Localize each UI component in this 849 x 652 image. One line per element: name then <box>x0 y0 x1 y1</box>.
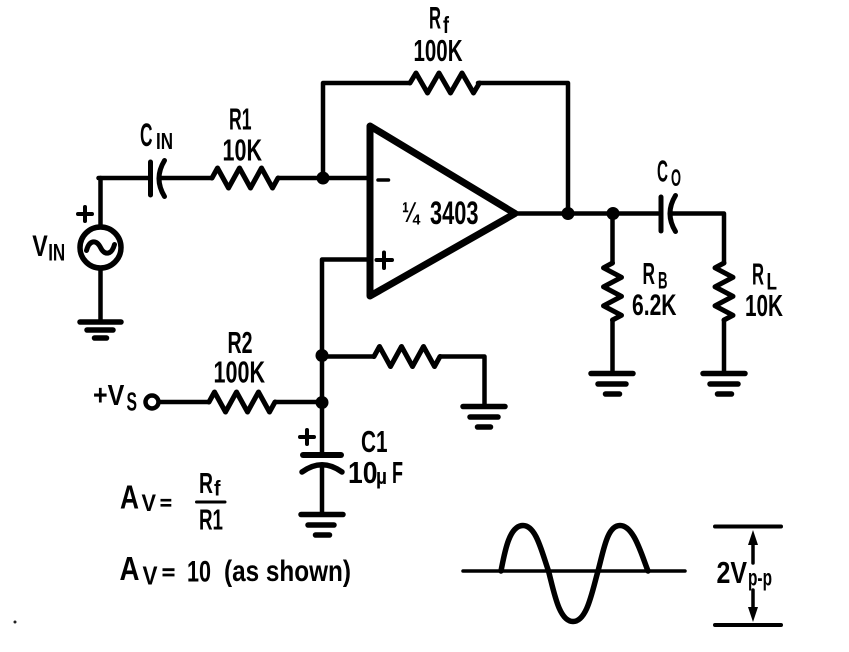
node junction R2/C1 <box>316 396 329 409</box>
svg-text:100K: 100K <box>414 33 463 68</box>
svg-text:10: 10 <box>348 455 378 490</box>
waveform sine <box>501 526 648 622</box>
C1 plus polarity mark <box>300 430 314 444</box>
source VIN <box>80 227 121 268</box>
VIN plus polarity mark <box>78 207 92 221</box>
formula Av = 10 (as shown) <box>120 550 352 591</box>
wire resistor to ground corner <box>440 357 485 405</box>
wire RB branch <box>610 214 615 264</box>
capacitor C1 <box>302 455 342 472</box>
svg-text:R1: R1 <box>199 505 223 537</box>
reference line top <box>715 525 781 529</box>
op-amp plus input symbol <box>377 253 393 269</box>
wire node down to C1 <box>320 355 325 453</box>
svg-text:V: V <box>142 490 157 517</box>
ground under RL <box>703 374 745 395</box>
wire node to gnd resistor <box>322 354 374 359</box>
svg-text:+V: +V <box>93 380 125 412</box>
wire output from op-amp <box>514 211 658 216</box>
svg-text:10: 10 <box>187 556 211 589</box>
svg-text:10K: 10K <box>223 133 263 168</box>
ground under C1 <box>301 515 343 536</box>
label RL 10K <box>745 257 783 324</box>
svg-text:¼: ¼ <box>402 197 421 229</box>
label Co <box>657 154 681 193</box>
wire R2 to node <box>275 400 322 405</box>
op-amp minus input symbol <box>378 178 389 182</box>
formula Av = Rf/R1 <box>120 468 223 537</box>
label VIN <box>32 230 65 267</box>
svg-text:R: R <box>643 256 656 291</box>
svg-text:IN: IN <box>48 240 65 267</box>
svg-text:f: f <box>214 478 221 501</box>
resistor to ground (unlabeled) <box>374 347 440 367</box>
op-amp U1 quarter 3403 <box>370 126 515 296</box>
arrow up <box>748 530 758 563</box>
svg-text:R: R <box>199 468 213 500</box>
svg-text:S: S <box>127 387 138 417</box>
label C1 10uF <box>348 424 403 490</box>
svg-text:A: A <box>120 550 140 587</box>
node junction at inverting input <box>317 172 330 185</box>
ground under unlabeled resistor <box>463 407 505 428</box>
wire RL to ground <box>722 320 727 371</box>
svg-text:3403: 3403 <box>430 195 479 231</box>
svg-text:F: F <box>392 455 403 490</box>
svg-text:O: O <box>671 165 681 192</box>
capacitor CIN <box>151 161 165 197</box>
svg-text:µ: µ <box>376 464 387 489</box>
label 2Vp-p <box>717 555 773 591</box>
svg-text:V: V <box>143 561 159 591</box>
resistor RB <box>604 263 622 320</box>
wire VIN top to corner <box>98 178 103 227</box>
label RB 6.2K <box>632 256 677 322</box>
wire feedback right vertical to output <box>478 83 568 214</box>
wire RB to ground <box>610 320 615 371</box>
svg-text:V: V <box>32 230 48 263</box>
label R2 100K <box>214 325 266 390</box>
speck <box>14 621 17 624</box>
node junction output/feedback <box>562 207 575 220</box>
resistor RL <box>715 263 733 320</box>
svg-text:(as shown): (as shown) <box>224 555 351 588</box>
capacitor Co <box>661 196 676 232</box>
resistor Rf <box>410 73 480 93</box>
ground under VIN <box>80 322 121 338</box>
label Rf 100K <box>414 0 463 68</box>
svg-text:R1: R1 <box>229 102 252 137</box>
wire R1 to op-amp inverting input <box>278 176 370 181</box>
svg-text:C1: C1 <box>361 424 388 459</box>
node junction output/RB <box>607 207 620 220</box>
reference line bottom <box>715 623 781 627</box>
wire Co to RL corner <box>670 214 724 264</box>
svg-text:6.2K: 6.2K <box>632 289 677 322</box>
wire corner to CIN <box>99 176 149 181</box>
wire VIN bottom to ground <box>98 269 103 321</box>
resistor R1 <box>212 168 278 188</box>
svg-text:R: R <box>752 257 764 292</box>
svg-text:C: C <box>657 154 668 189</box>
wire feedback left vertical <box>323 83 409 178</box>
label R1 10K <box>223 102 263 168</box>
svg-text:p-p: p-p <box>748 565 772 591</box>
label +VS <box>93 380 137 417</box>
wire C1 to ground <box>320 465 325 512</box>
fraction bar <box>197 501 226 504</box>
svg-text:C: C <box>140 117 153 153</box>
terminal +VS <box>146 396 159 409</box>
label 1/4 3403 <box>402 195 479 231</box>
node junction plus-input / R-gnd <box>316 349 329 362</box>
svg-text:2V: 2V <box>717 555 748 590</box>
svg-text:100K: 100K <box>214 355 266 390</box>
ground under RB <box>591 374 633 395</box>
equals sign (formula 2) <box>163 570 175 575</box>
label CIN <box>140 117 173 154</box>
wire CIN to R1 <box>160 176 212 181</box>
resistor R2 <box>209 392 275 412</box>
equals sign (formula 1) <box>161 500 172 505</box>
svg-text:A: A <box>120 479 139 516</box>
svg-text:R: R <box>429 0 441 36</box>
wire noninverting input from node <box>322 260 370 356</box>
svg-text:IN: IN <box>156 128 173 154</box>
waveform baseline <box>463 569 685 573</box>
wire +VS to R2 <box>159 400 209 405</box>
arrow down <box>748 590 758 622</box>
svg-text:10K: 10K <box>745 288 783 323</box>
